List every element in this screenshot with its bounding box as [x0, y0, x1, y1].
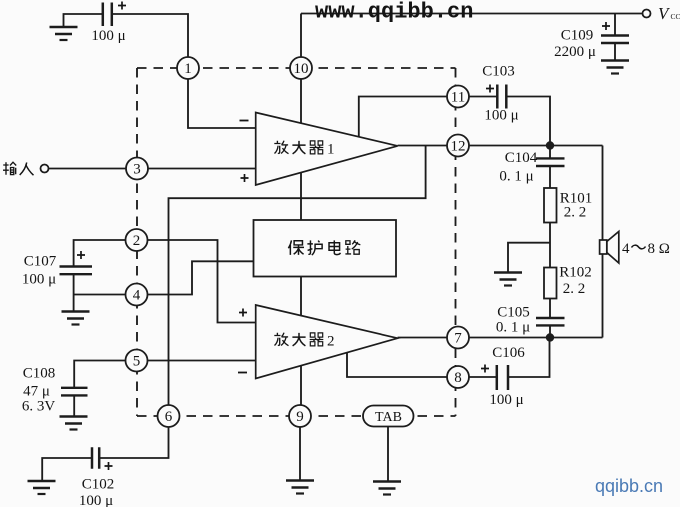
wire: amp2 lower edge down to pin 9	[300, 366, 302, 405]
pin 11	[447, 86, 469, 108]
label 保护电路 inside protection box	[288, 240, 304, 255]
wire: top supply rail from pin 10 riser to Vcc terminal	[301, 14, 643, 58]
op-amp U2 amplifier 2 triangle	[256, 305, 398, 379]
wire: C108 bottom plate to ground	[73, 396, 75, 416]
amp2 minus sign	[238, 372, 247, 374]
wire: C104 bottom plate to R101 top	[549, 167, 551, 189]
svg-text:6. 3V: 6. 3V	[22, 399, 56, 415]
svg-text:10: 10	[294, 61, 309, 77]
capacitor C104 plates	[536, 158, 565, 166]
capacitor C102 plates	[92, 447, 99, 469]
wire: pin 8 right to C106 left plate	[469, 376, 496, 378]
svg-text:100 μ: 100 μ	[91, 28, 125, 44]
dashed IC boundary box right edge	[455, 68, 457, 416]
ground G1 top-left	[50, 27, 78, 40]
capacitor C103 plates	[497, 85, 506, 109]
svg-text:8 Ω: 8 Ω	[648, 241, 670, 257]
wire: pin 5 right to amp2 inverting input	[148, 360, 256, 362]
ground G6 under pin 9	[286, 481, 314, 494]
wire: amp2 output to pin 7	[398, 337, 447, 339]
wire: pin 11 right to C103 left plate	[469, 96, 497, 98]
svg-text:47 μ: 47 μ	[23, 383, 50, 399]
svg-text:C106: C106	[492, 345, 525, 361]
svg-text:1: 1	[327, 142, 335, 158]
wire: pin 2 right, down, to amp2 non-inverting input	[148, 240, 256, 323]
wire: pin 10 down to amp1 top edge	[300, 79, 302, 123]
dashed IC boundary box left edge	[136, 68, 138, 416]
capacitor C105 plates	[536, 318, 565, 325]
wire: pin 4 left to C107 ground line	[74, 294, 126, 296]
wire: pin 4 right, up, to protection circuit left side	[148, 261, 254, 294]
TAB pad	[363, 406, 414, 427]
label 放大器1 inside amp1	[274, 141, 288, 154]
wire: C102 left plate to ground	[42, 458, 91, 480]
svg-text:C104: C104	[505, 150, 538, 166]
svg-text:TAB: TAB	[375, 410, 402, 425]
wire: midpoint junction left to ground	[508, 243, 550, 272]
capacitor C109 plates	[601, 36, 629, 44]
pin 3	[126, 158, 148, 180]
wire: pin 12 right to speaker line	[469, 145, 603, 147]
pin 5	[126, 350, 148, 372]
wire: C107 bottom plate down to ground, pin 4 tap	[73, 275, 75, 312]
ground G3 under C107	[62, 312, 90, 325]
wire: feedback from amp1 output down, left, down to pin 6	[169, 146, 426, 406]
pin 12	[447, 135, 469, 157]
wire: pin 11 left and down to amp1 top edge (bootstrap)	[359, 97, 447, 137]
capacitor C101 100u plates	[103, 3, 112, 27]
svg-text:100 μ: 100 μ	[79, 493, 113, 507]
ground G8 under C102	[28, 481, 56, 494]
wire: junction down to C104 top plate	[549, 146, 551, 159]
wire: pin 6 down then left to C102	[100, 427, 169, 458]
svg-text:11: 11	[451, 90, 465, 106]
wire: C109 bottom plate to ground	[614, 44, 616, 61]
wire: C106 right plate right then up to junction on pin 7 line	[509, 341, 550, 377]
wire: C105 bottom plate to junction on pin 7 line	[549, 326, 551, 338]
svg-text:4: 4	[133, 288, 141, 304]
svg-text:4: 4	[622, 241, 630, 257]
svg-text:1: 1	[184, 61, 192, 77]
amp1 plus sign	[241, 174, 249, 182]
protection circuit box	[254, 220, 397, 277]
svg-text:C109: C109	[561, 28, 594, 44]
speaker 4-8 ohm	[600, 232, 619, 264]
wire: protection circuit bottom down to amp2 top edge	[300, 277, 302, 316]
wire: R102 bottom to C105 top plate	[549, 299, 551, 318]
svg-text:100 μ: 100 μ	[489, 392, 523, 408]
capacitor C108 plates	[61, 388, 88, 396]
resistor R102 body	[544, 268, 557, 299]
svg-text:2200 μ: 2200 μ	[554, 44, 596, 60]
wire: C103 right plate right then down to junction on pin 12 line	[507, 97, 550, 143]
label 输入 (input)	[3, 162, 16, 175]
pin 9	[289, 405, 311, 427]
svg-text:100 μ: 100 μ	[22, 272, 56, 288]
dashed IC boundary box bottom edge	[137, 415, 456, 417]
wire: C101 right plate to corner above pin 1, down to pin 1	[113, 14, 189, 58]
svg-text:100 μ: 100 μ	[484, 108, 518, 124]
svg-text:qqibb.cn: qqibb.cn	[595, 476, 663, 496]
svg-text:www.qqibb.cn: www.qqibb.cn	[315, 0, 473, 25]
pin 4	[126, 284, 148, 306]
svg-text:C103: C103	[482, 64, 515, 80]
junction dot at C103/C104 node	[546, 141, 554, 149]
input terminal open circle	[41, 165, 49, 173]
wire: pin 7 right to speaker line	[469, 337, 603, 339]
svg-text:8: 8	[454, 370, 462, 386]
wire: amp1 bottom edge down to protection circuit top	[300, 172, 302, 220]
amp1 minus sign	[240, 120, 249, 122]
wire: ground to C101 left plate	[64, 14, 103, 27]
wire: input terminal to pin 3	[49, 168, 127, 170]
ground G4 between R101 and R102	[494, 273, 522, 286]
wire: C109 branch from top rail	[614, 14, 616, 36]
wire: TAB down to ground	[387, 427, 389, 482]
wire: speaker branch vertical	[602, 146, 604, 338]
svg-text:2. 2: 2. 2	[563, 281, 586, 297]
svg-text:CC: CC	[671, 12, 680, 21]
pin 10	[290, 57, 312, 79]
svg-text:7: 7	[454, 331, 462, 347]
wire: pin 1 down then right to amp1 inverting input	[188, 79, 256, 128]
wire: amp2 lower edge down then right to pin 8	[347, 353, 447, 378]
amp2 plus sign	[239, 309, 247, 317]
wire: pin 5 left to C108 top plate	[74, 361, 125, 388]
ground G2 under C109	[601, 61, 629, 74]
ground G5 under C108	[60, 417, 88, 430]
svg-text:2: 2	[133, 233, 141, 249]
wire: pin 9 down to ground	[299, 427, 301, 480]
pin 8	[447, 366, 469, 388]
wire: R101 bottom through midpoint junction to R102 top	[549, 223, 551, 268]
pin 6	[158, 405, 180, 427]
svg-text:C102: C102	[82, 477, 115, 493]
svg-text:6: 6	[165, 409, 173, 425]
ground G7 under TAB	[373, 482, 401, 495]
C101 plus	[118, 2, 126, 10]
svg-text:2: 2	[327, 334, 335, 350]
wire: pin 2 left to C107 positive plate	[74, 240, 126, 266]
svg-text:3: 3	[133, 162, 141, 178]
junction dot at C105/C106 node	[546, 333, 554, 341]
capacitor C106 plates	[497, 365, 508, 390]
label 放大器2 inside amp2	[274, 333, 288, 346]
pin 7	[447, 327, 469, 349]
svg-text:C108: C108	[23, 365, 56, 381]
capacitor C107 plates	[60, 267, 93, 275]
Vcc terminal open circle	[643, 10, 651, 18]
svg-text:12: 12	[451, 139, 466, 155]
svg-text:2. 2: 2. 2	[564, 205, 587, 221]
dashed IC boundary box top edge	[137, 67, 456, 69]
svg-text:R102: R102	[559, 265, 592, 281]
pin 2	[126, 229, 148, 251]
op-amp U1 amplifier 1 triangle	[256, 113, 398, 186]
pin 1	[177, 57, 199, 79]
svg-text:5: 5	[133, 354, 141, 370]
svg-text:C107: C107	[24, 254, 57, 270]
svg-text:0. 1 μ: 0. 1 μ	[499, 169, 533, 185]
wire: amp1 output to pin 12	[398, 145, 447, 147]
svg-text:0. 1 μ: 0. 1 μ	[496, 320, 530, 336]
svg-text:C105: C105	[497, 305, 530, 321]
svg-text:9: 9	[296, 409, 304, 425]
resistor R101 body	[544, 188, 557, 223]
wire: pin 3 to amp1 non-inverting input	[148, 168, 256, 170]
